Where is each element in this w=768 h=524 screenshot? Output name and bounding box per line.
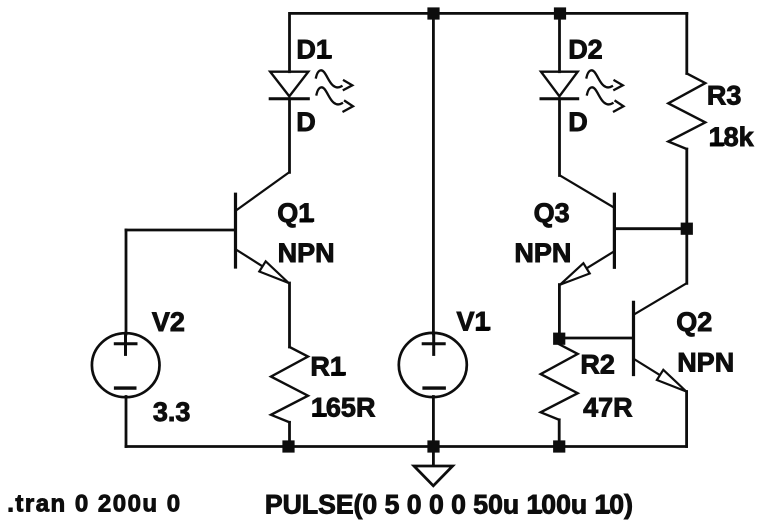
wire R3 to Q2 collector node xyxy=(685,149,688,283)
voltage source V2 xyxy=(92,333,160,397)
junction bottom V1 xyxy=(427,440,439,452)
transistor Q2 xyxy=(634,283,687,391)
wire top rail xyxy=(290,12,687,15)
resistor R1 xyxy=(271,347,308,422)
wire R1 to bottom rail xyxy=(288,422,291,446)
svg-text:V1: V1 xyxy=(457,306,490,336)
svg-text:.tran 0 200u 0: .tran 0 200u 0 xyxy=(7,490,181,517)
LED D1 xyxy=(270,70,353,111)
svg-text:R3: R3 xyxy=(707,80,742,110)
svg-text:47R: 47R xyxy=(583,393,633,423)
voltage source V1 xyxy=(399,333,467,397)
wire D2 cathode to Q3 collector xyxy=(558,99,561,176)
wire R2 to bottom rail xyxy=(558,420,561,447)
junction top V1 xyxy=(427,7,439,19)
svg-text:NPN: NPN xyxy=(677,347,734,377)
wire D2 top lead xyxy=(558,13,561,71)
svg-text:3.3: 3.3 xyxy=(153,397,191,427)
wire V1 branch xyxy=(432,13,435,334)
svg-text:Q2: Q2 xyxy=(676,307,712,337)
junction bottom R2 xyxy=(553,440,565,452)
wire R3 top lead xyxy=(685,13,688,73)
svg-text:D2: D2 xyxy=(568,35,603,65)
junction top D2 xyxy=(554,7,566,19)
svg-text:Q1: Q1 xyxy=(277,198,313,228)
svg-text:D: D xyxy=(296,107,316,137)
junction node Q3 emitter / R2 / Q2 base xyxy=(553,333,565,345)
wire Q2 base xyxy=(559,337,633,340)
wire Q1 base xyxy=(126,229,236,232)
svg-text:D1: D1 xyxy=(296,35,331,65)
svg-text:R1: R1 xyxy=(310,352,345,382)
svg-text:NPN: NPN xyxy=(278,238,335,268)
wire V1 bottom lead xyxy=(432,397,435,447)
wire Q1 emitter to R1 xyxy=(288,283,291,347)
wire Q3 base to node xyxy=(614,227,686,230)
svg-text:165R: 165R xyxy=(311,393,376,423)
wire D1 cathode to Q1 collector xyxy=(288,99,291,173)
svg-text:PULSE(0 5 0 0 0 50u 100u 10): PULSE(0 5 0 0 0 50u 100u 10) xyxy=(265,489,633,519)
svg-text:18k: 18k xyxy=(709,122,755,152)
wire Q2 emitter to bottom rail xyxy=(685,392,688,447)
wire ground stub xyxy=(432,447,435,466)
ground xyxy=(414,466,453,486)
wire V2 bottom lead xyxy=(125,397,128,447)
wire Q3 emitter to R2 node xyxy=(558,285,561,338)
junction node Q3 base / R3 / Q2 collector xyxy=(681,223,693,235)
wire bottom rail xyxy=(126,445,687,448)
resistor R3 xyxy=(668,74,705,150)
wire D1 top lead xyxy=(288,13,291,71)
svg-text:Q3: Q3 xyxy=(534,198,570,228)
resistor R2 xyxy=(541,344,578,420)
svg-text:D: D xyxy=(568,107,588,137)
svg-text:NPN: NPN xyxy=(514,238,571,268)
LED D2 xyxy=(541,70,624,111)
svg-text:R2: R2 xyxy=(580,349,615,379)
svg-text:V2: V2 xyxy=(152,307,185,337)
wire V2 branch upper xyxy=(125,230,128,334)
transistor Q1 xyxy=(236,172,290,283)
transistor Q3 xyxy=(560,176,614,285)
junction bottom R1 xyxy=(282,440,294,452)
